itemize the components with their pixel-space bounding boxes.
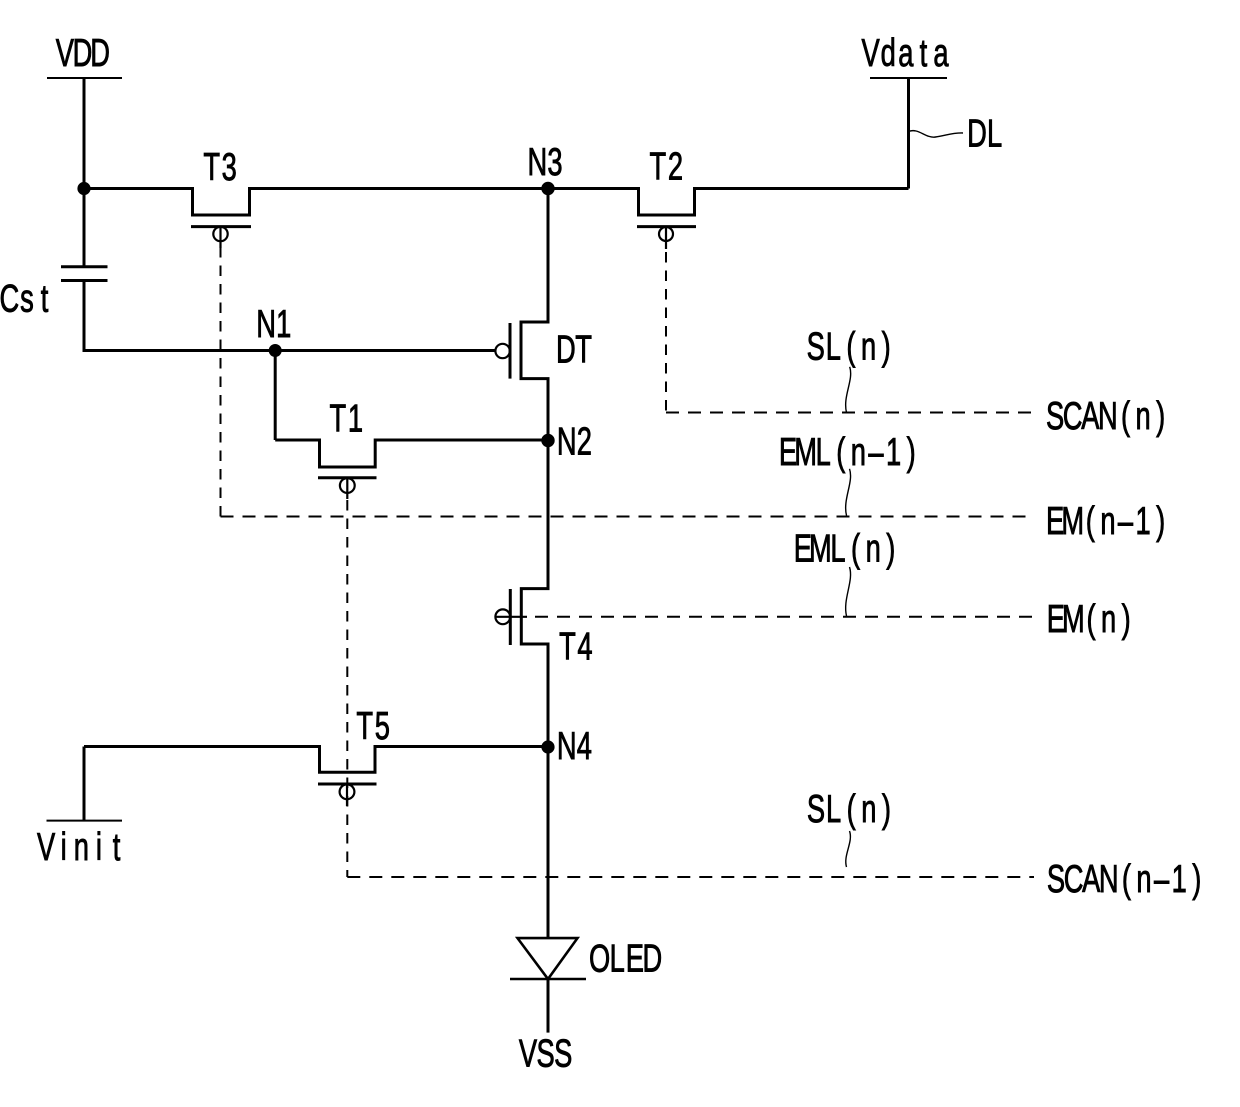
svg-text:Cst: Cst — [0, 278, 49, 321]
svg-text:OLED: OLED — [589, 938, 662, 981]
svg-text:EML(n): EML(n) — [794, 528, 896, 571]
svg-text:EM(n–1): EM(n–1) — [1046, 500, 1165, 543]
svg-text:DT: DT — [556, 329, 592, 372]
svg-text:Vdata: Vdata — [861, 32, 948, 75]
svg-text:SCAN(n): SCAN(n) — [1046, 395, 1165, 438]
svg-text:DL: DL — [967, 113, 1002, 156]
svg-text:N1: N1 — [256, 303, 291, 346]
svg-text:VDD: VDD — [56, 33, 110, 76]
svg-text:SCAN(n–1): SCAN(n–1) — [1047, 858, 1201, 901]
svg-text:N4: N4 — [557, 725, 592, 768]
svg-text:N3: N3 — [527, 141, 562, 184]
svg-text:VSS: VSS — [519, 1033, 572, 1076]
svg-text:N2: N2 — [557, 421, 592, 464]
